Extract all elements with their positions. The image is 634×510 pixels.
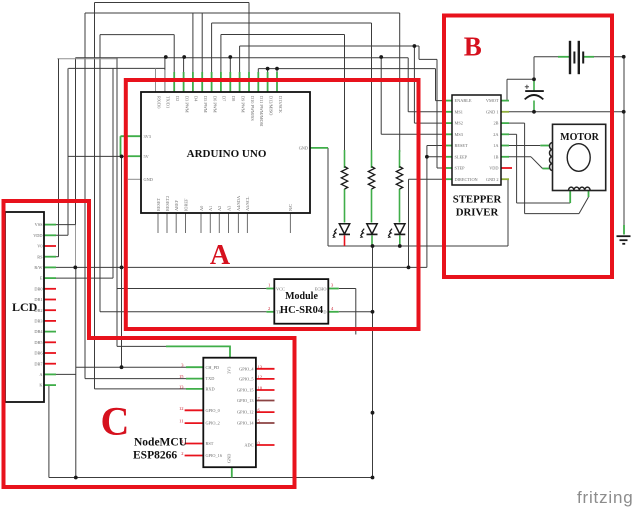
node C highlight box: [4, 201, 295, 487]
svg-text:1: 1: [268, 283, 270, 288]
LED D3: [388, 224, 405, 238]
wire 2B net horizontal from stub: [509, 122, 525, 124]
junction dot D13/bus68: [275, 67, 279, 71]
wire 2B diagonal to motor coil: [579, 197, 589, 214]
pin stub NodeMCU GND bottom: [231, 467, 233, 477]
pin stub HC-SR04 VCC: [266, 288, 274, 290]
wire vertical x=372.5 (LED rail to bottom ground rail): [372, 246, 374, 478]
LED D2: [360, 224, 377, 238]
wire battery right feed: [594, 56, 624, 58]
pin labels Arduino left/right: [144, 134, 309, 182]
wire Arduino 5V pin to left rail (y=156.4): [68, 155, 128, 157]
NodeMCU ESP8266 body: [203, 358, 256, 468]
pin stub stepper MS3: [444, 133, 452, 135]
wire bus y=68.4 left segment (to D1): [68, 67, 164, 69]
svg-text:GPIO_2: GPIO_2: [206, 421, 220, 426]
NodeMCU VCC green wire: [166, 345, 230, 347]
junction dot D8/bus57: [228, 55, 232, 59]
pin stub Arduino D5 PWM: [201, 72, 203, 92]
pin stub stepper RESET: [444, 145, 452, 147]
junction dot LED3/rail: [398, 244, 402, 248]
wire LCD VDD connector: [44, 234, 68, 236]
ground symbol lead: [623, 225, 625, 235]
wire D4 pin drop: [192, 13, 194, 92]
pin stub stepper MS1: [444, 111, 452, 113]
svg-text:5V: 5V: [144, 154, 150, 159]
pin numbers HC-SR04: [268, 283, 334, 311]
svg-text:RX/D0: RX/D0: [156, 96, 161, 108]
pin stub Arduino D8: [229, 72, 231, 92]
pin stub NodeMCU GPIO_12: [256, 411, 275, 413]
wire MS1 vertical x=408.2: [407, 58, 409, 112]
wire 1A net to motor: [509, 145, 540, 147]
junction dot D3/bus57: [182, 55, 186, 59]
svg-text:SLEEP: SLEEP: [455, 154, 468, 159]
wire 1B diagonal to motor coil: [531, 157, 543, 169]
stepper driver body: [452, 95, 501, 185]
svg-text:D11 PWM/MOSI: D11 PWM/MOSI: [259, 96, 264, 127]
svg-text:2: 2: [268, 306, 270, 311]
wire 2B lower horizontal (y=213.6): [525, 213, 579, 215]
wire right vertical x=624 to ground: [623, 57, 625, 233]
wire light bus y=58.8: [57, 58, 116, 60]
svg-text:2B: 2B: [493, 121, 498, 126]
pin stub Arduino D3 PWM: [183, 72, 185, 92]
wire DIRECTION vertical x=408.5: [408, 179, 410, 267]
svg-text:A1: A1: [208, 206, 213, 211]
svg-text:A5/SCL: A5/SCL: [245, 196, 250, 211]
svg-text:DB6: DB6: [34, 351, 43, 356]
wire LCD A pin connector: [44, 373, 76, 375]
motor coil 1A lead: [540, 145, 549, 147]
wire D2 pin drop: [173, 35, 175, 92]
wire K corner to rail junction: [49, 477, 76, 479]
battery B1: [570, 41, 583, 74]
svg-text:DB4: DB4: [34, 329, 43, 334]
wire Arduino bottom pin stub: [209, 213, 211, 233]
wire GND1 long net (y=111.8): [509, 111, 624, 113]
pin stub NodeMCU CH_PD: [186, 366, 203, 368]
resistor R1: [341, 167, 347, 190]
junction dot MS2/bus46: [413, 44, 417, 48]
wire D6 pin drop: [211, 23, 213, 92]
junction dot LED2/rail: [371, 244, 375, 248]
svg-text:D10 PWM/SS: D10 PWM/SS: [250, 96, 255, 121]
wire HC-SR04 ECHO net: [339, 288, 356, 290]
pin stub HC-SR04 GND: [328, 311, 339, 313]
wire STEP vertical x=437: [436, 59, 438, 168]
pin stub NodeMCU RST (red): [185, 443, 204, 445]
svg-text:GPIO_5: GPIO_5: [239, 377, 253, 382]
pin stub NodeMCU GPIO_4: [256, 368, 275, 370]
svg-text:N/C: N/C: [288, 204, 293, 211]
inductor motor bottom coil: [569, 187, 591, 190]
wire NodeMCU CH_PD net: [76, 366, 186, 368]
wire Arduino bottom pin stub: [246, 213, 248, 233]
wire Arduino bottom pin stub: [237, 213, 239, 233]
svg-text:1A: 1A: [493, 143, 499, 148]
pin stub NodeMCU GPIO_13: [256, 400, 275, 402]
wire D9 pin drop: [239, 46, 241, 92]
svg-text:MS2: MS2: [455, 121, 463, 126]
wire LCD E connector: [44, 277, 113, 279]
pin labels Arduino top row: [156, 96, 282, 127]
svg-text:RS: RS: [37, 254, 43, 259]
wire Arduino bottom pin stub: [289, 213, 291, 233]
pin stub LCD DB5: [44, 341, 56, 343]
wire ECHO vertical x=355.8: [355, 289, 357, 335]
wire Arduino bottom pin stub: [185, 213, 187, 233]
wire R3 column upper: [399, 13, 401, 152]
svg-text:12: 12: [258, 374, 263, 379]
wire VMOT riser x=507: [506, 79, 508, 100]
junction dot R/W net B: [120, 266, 124, 270]
pin stub Arduino D11 PWM/MOSI: [257, 72, 259, 92]
node A highlight box: [126, 80, 419, 329]
wire bottom ground rail (y=477.5): [76, 477, 373, 479]
svg-text:15: 15: [179, 374, 184, 379]
wire Arduino bottom pin stub: [200, 213, 202, 233]
pin stub Arduino D9 PWM: [239, 72, 241, 92]
pin stub Arduino D6 PWM: [211, 72, 213, 92]
wire stepper GND2 vertical x=508: [507, 179, 509, 246]
LED D1: [333, 224, 350, 238]
wire bus D6-R2 net (y=23): [212, 22, 372, 24]
svg-text:1: 1: [181, 439, 183, 444]
svg-text:ECHO: ECHO: [315, 286, 327, 291]
junction dot ground rail corner: [371, 476, 375, 480]
svg-text:GPIO_16: GPIO_16: [206, 453, 223, 458]
wire 2A vertical x=516.6: [516, 134, 518, 203]
svg-text:A4/SDA: A4/SDA: [236, 195, 241, 211]
wire Arduino GND left pin stub: [128, 178, 141, 180]
pin stub LCD RS: [44, 256, 56, 258]
pin stub NodeMCU GPIO_5: [256, 378, 275, 380]
resistor upper lead: [399, 150, 401, 168]
wire D8 pin drop: [229, 58, 231, 92]
svg-text:13: 13: [179, 384, 184, 389]
wire NodeMCU RXD net: [95, 388, 187, 390]
wire D0 hanging stub: [155, 68, 157, 74]
op-amp U1: Arduino Uno body: [141, 92, 310, 213]
wire D5 pin drop: [201, 13, 203, 92]
wire 2A lower horizontal (y=203): [517, 202, 571, 204]
svg-text:GPIO_12: GPIO_12: [237, 410, 253, 415]
svg-text:Module: Module: [285, 291, 318, 302]
svg-text:HC-SR04: HC-SR04: [280, 305, 324, 316]
svg-text:ARDUINO UNO: ARDUINO UNO: [187, 148, 267, 160]
wire MS3 horizontal: [381, 133, 452, 135]
junction dot 5V/3V3 net: [120, 155, 124, 159]
svg-text:VDD: VDD: [33, 233, 42, 238]
svg-text:R/W: R/W: [34, 265, 43, 270]
svg-text:DB2: DB2: [34, 308, 42, 313]
wire bus D9 net (y=46): [240, 45, 419, 47]
wire RESET horizontal: [427, 145, 452, 147]
resistor lower lead / LED anode: [344, 189, 346, 223]
svg-text:RST: RST: [206, 441, 214, 446]
svg-text:RESET2: RESET2: [165, 196, 170, 211]
svg-text:GND 2: GND 2: [486, 177, 499, 182]
junction dot RESET-SLEEP tie: [425, 155, 429, 159]
svg-text:AREF: AREF: [174, 199, 179, 211]
wire vertical x=117 (bus57 to HC-SR04 VCC and NodeMCU VCC): [116, 58, 118, 347]
wire bus D7-R1 net (y=34.5): [221, 34, 345, 36]
wire bus D9 jog down: [418, 46, 420, 59]
pin stub Arduino TX/D1: [164, 70, 166, 92]
pin labels HC-SR04: [276, 286, 327, 314]
pin stub NodeMCU GPIO_0 (red): [185, 409, 204, 411]
module HC-SR04 body: [274, 279, 328, 324]
svg-text:D12/MISO: D12/MISO: [268, 96, 273, 115]
pin stub NodeMCU ADC: [256, 444, 275, 446]
pin stub LCD V0: [44, 245, 56, 247]
wire Arduino GND right pin vertical x=328: [327, 148, 329, 246]
motor rotor circle: [567, 144, 590, 172]
motor bottom coil right lead: [588, 191, 590, 198]
wire D12 pin drop: [267, 69, 269, 92]
wire LED cathode rail (y=246): [328, 245, 508, 247]
wire 2B vertical x=524.6: [524, 123, 526, 214]
pin stub Arduino 3V3 wire: [121, 135, 142, 137]
junction dot ground rail: [74, 476, 78, 480]
junction dot GND1 end: [622, 110, 626, 114]
wire VMOT to cap junction: [507, 78, 534, 80]
pin stub Arduino RX/D0: [155, 70, 157, 92]
pin labels stepper driver: [455, 98, 500, 182]
pin stub LCD K: [44, 384, 56, 386]
svg-text:IOREF: IOREF: [183, 198, 188, 211]
ground symbol: [617, 236, 631, 244]
pin stub NodeMCU GPIO_2 (red): [185, 422, 204, 424]
pin stub LCD DB3: [44, 320, 56, 322]
pin stub stepper 1A: [501, 145, 509, 147]
wire vertical x=113 (bus68 to LCD E row): [112, 68, 114, 278]
svg-text:TX/D1: TX/D1: [166, 96, 171, 108]
wire vertical x=48.9 to ground rail: [48, 385, 50, 477]
junction dot mid vertical: [371, 411, 375, 415]
svg-text:C: C: [101, 399, 130, 444]
pin stub NodeMCU GPIO_14: [256, 422, 275, 424]
pin stub LCD DB2: [44, 309, 56, 311]
pin stub LCD DB4: [44, 331, 56, 333]
svg-text:D: D: [323, 310, 326, 315]
battery negative lead: [558, 56, 570, 58]
svg-text:DB7: DB7: [34, 361, 43, 366]
svg-text:STEP: STEP: [455, 166, 466, 171]
wire STEP horizontal: [437, 167, 452, 169]
svg-text:2: 2: [181, 451, 183, 456]
wire SLEEP horizontal: [427, 156, 452, 158]
wire battery left feed (y=56.8): [534, 56, 558, 58]
wire MS2 vertical x=414.4: [413, 46, 415, 123]
svg-text:11: 11: [179, 419, 183, 424]
svg-text:RESET: RESET: [455, 143, 469, 148]
wire HC-SR04 VCC net: [117, 288, 266, 290]
svg-text:STEPPER: STEPPER: [453, 194, 502, 206]
pin stub LCD R/W: [44, 266, 56, 268]
wire bus D2 net (y=34.6): [100, 34, 174, 36]
capacitor bottom lead: [533, 101, 535, 112]
svg-text:D6 PWM: D6 PWM: [212, 96, 217, 113]
pin labels NodeMCU: [206, 365, 255, 463]
wire ENABLE horizontal: [436, 100, 453, 102]
pin stub HC-SR04 TR: [266, 311, 274, 313]
pin stub stepper GND 1: [501, 111, 509, 113]
LED1 cathode stub (red): [344, 236, 346, 247]
svg-text:ADC: ADC: [244, 443, 253, 448]
svg-text:D7: D7: [222, 96, 227, 102]
wire left vertical x=85 (down to TXD row): [84, 13, 86, 379]
wire LCD R/W long net (y=267.4): [44, 266, 427, 268]
svg-text:1B: 1B: [493, 154, 498, 159]
pin stub stepper 2A: [501, 133, 509, 135]
svg-text:10: 10: [258, 386, 263, 391]
wire bus D9 jog right: [419, 58, 437, 60]
pin stub Arduino GND right: [310, 147, 328, 149]
junction dot D1/bus57: [164, 55, 168, 59]
pin stub HC-SR04 ECHO: [328, 288, 339, 290]
svg-text:D2: D2: [175, 96, 180, 101]
junction dot R/W net A: [73, 266, 77, 270]
wire NodeMCU TXD net: [85, 378, 186, 380]
svg-text:3V3: 3V3: [227, 367, 232, 374]
wire NodeMCU VCC feed horizontal (y=346.4): [117, 345, 166, 347]
wire vertical x=121.5 (3V3/5V junction down to CH_PD net): [121, 156, 123, 367]
motor bottom coil left lead: [569, 191, 571, 204]
LCD body: [5, 212, 44, 402]
resistor R2: [368, 167, 374, 190]
wire bus y=68.6 right segment (D11 to ENABLE): [258, 68, 435, 70]
wire bus D10 net (y=2.5): [95, 2, 250, 4]
svg-text:TXD: TXD: [206, 376, 215, 381]
wire D11 pin drop: [257, 69, 259, 92]
svg-text:V0: V0: [37, 244, 42, 249]
junction dot HC GND net: [371, 310, 375, 314]
pin stub Arduino D7: [220, 72, 222, 92]
pin stub LCD DB6: [44, 352, 56, 354]
svg-text:DB3: DB3: [34, 319, 42, 324]
svg-text:GPIO_14: GPIO_14: [237, 421, 254, 426]
wire Arduino bottom pin stub: [218, 213, 220, 233]
svg-text:A0: A0: [199, 206, 204, 211]
svg-text:B: B: [464, 32, 482, 62]
wire D1 pin drop: [164, 58, 166, 92]
resistor upper lead: [371, 150, 373, 168]
wire D13 pin drop: [276, 69, 278, 92]
svg-text:GPIO_13: GPIO_13: [237, 398, 253, 403]
pin stub Arduino D2: [173, 72, 175, 92]
wire R2 column upper: [371, 23, 373, 152]
resistor R3: [396, 167, 402, 190]
pin stub stepper MS2: [444, 122, 452, 124]
junction dot DIRECTION/RW net: [407, 266, 411, 270]
motor body: [553, 124, 606, 190]
svg-text:VMOT: VMOT: [486, 98, 499, 103]
wire LCD RS connector: [44, 256, 59, 258]
svg-text:E: E: [40, 276, 43, 281]
motor coil 1B lead: [543, 168, 550, 170]
node B highlight box: [444, 16, 612, 278]
wire bus D4/D5 net (y=13): [85, 12, 400, 14]
pin stub LCD DB1: [44, 299, 56, 301]
wire RESET vertical x=426.9: [426, 146, 428, 268]
svg-text:ENABLE: ENABLE: [455, 98, 472, 103]
wire MS1 horizontal: [408, 111, 452, 113]
svg-text:GND: GND: [144, 177, 153, 182]
pin stub stepper STEP: [444, 167, 452, 169]
svg-text:3V3: 3V3: [144, 134, 151, 139]
pin labels LCD: [33, 222, 43, 388]
LED3 cathode stub: [399, 236, 401, 247]
svg-text:D4: D4: [194, 96, 199, 102]
svg-text:13: 13: [258, 364, 263, 369]
svg-text:D3 PWM: D3 PWM: [184, 96, 189, 113]
wire bus y=57 net: [76, 57, 409, 59]
pin stub stepper DIRECTION: [444, 178, 452, 180]
svg-text:2A: 2A: [493, 132, 499, 137]
pin stub LCD VDD: [44, 234, 56, 236]
svg-text:MOTOR: MOTOR: [560, 132, 599, 143]
svg-text:VCC: VCC: [276, 286, 285, 291]
capacitor C1 (polarized): [525, 85, 544, 100]
svg-text:fritzing: fritzing: [577, 488, 633, 507]
wire Arduino bottom pin stub: [175, 213, 177, 233]
junction dot cap top: [532, 77, 536, 81]
svg-text:RESET: RESET: [156, 197, 161, 211]
svg-text:D8: D8: [231, 96, 236, 101]
wire D7 pin drop: [220, 35, 222, 93]
battery positive lead: [583, 56, 594, 58]
pin stub LCD E: [44, 277, 56, 279]
svg-text:GPIO_4: GPIO_4: [239, 366, 254, 371]
pin stub Arduino 5V: [128, 155, 141, 157]
pin stub stepper ENABLE: [444, 100, 452, 102]
wire HC-SR04 TR net: [100, 311, 266, 313]
pin stub NodeMCU 3V3 top: [229, 346, 231, 358]
pin stub stepper VMOT: [501, 100, 509, 102]
junction dot battery right end: [622, 55, 626, 59]
wire left vertical x=94.5 (D10 bus down to RXD row): [94, 3, 96, 389]
wire LCD VSS connector: [44, 224, 76, 226]
svg-text:D9 PWM: D9 PWM: [240, 96, 245, 113]
svg-text:A2: A2: [217, 206, 222, 211]
wire 2A net horizontal from stub: [509, 133, 517, 135]
pin stub stepper GND 2: [501, 178, 509, 180]
svg-text:GND: GND: [299, 146, 308, 151]
pin stub LCD A: [44, 373, 56, 375]
svg-text:VSS: VSS: [35, 222, 43, 227]
pin stub stepper 1B: [501, 156, 509, 158]
svg-text:GPIO_15: GPIO_15: [237, 388, 253, 393]
wire MS3 vertical x=381.2: [380, 58, 382, 135]
wire 1B net horizontal: [509, 156, 531, 158]
pin stub NodeMCU RXD: [186, 388, 203, 390]
wire left vertical x=75.5 (bus57 to LCD VSS): [75, 58, 77, 225]
svg-text:DB0: DB0: [34, 286, 42, 291]
wire Arduino bottom pin stub: [228, 213, 230, 233]
capacitor top lead: [533, 79, 535, 90]
svg-text:GPIO_0: GPIO_0: [206, 408, 220, 413]
pin stub NodeMCU GPIO_16 (red): [185, 455, 204, 457]
wire left vertical x=68 (bus y=68.4 down to LCD VDD): [67, 68, 69, 235]
svg-text:D13/SCK: D13/SCK: [278, 96, 283, 114]
wire Arduino bottom pin stub: [157, 213, 159, 233]
svg-text:MS1: MS1: [455, 109, 463, 114]
pin labels Arduino bottom row: [156, 195, 293, 211]
pin stub Arduino D10 PWM/SS: [248, 72, 250, 92]
svg-text:VDD: VDD: [489, 166, 498, 171]
